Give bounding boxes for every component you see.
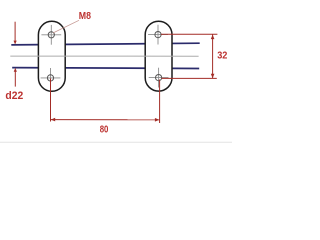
dimension 80 left arrowhead [51,118,56,122]
wire rod bottom line [12,67,199,70]
dimension 32 line [212,34,214,78]
dimension d22 bottom arrow [14,68,17,87]
dimension 32 top arrowhead [211,35,215,40]
leader M8 [53,20,79,33]
svg-text:M8: M8 [79,11,91,22]
footer rule [0,141,232,143]
dimension 80 right arrowhead [155,118,160,122]
left link plate [38,21,65,91]
right link plate [145,21,172,91]
hole D crosshair [149,68,169,88]
svg-text:32: 32 [217,51,227,62]
dimension 32 bottom arrowhead [211,74,215,79]
hole C circle [155,31,161,37]
centerline [10,55,198,57]
dimension d22 top arrow [14,22,17,45]
hole C crosshair [148,25,168,45]
svg-text:d22: d22 [5,90,23,102]
hole D circle [156,75,162,81]
wire rod top line [11,43,199,45]
hole B crosshair [41,68,61,88]
dimension 32 top extension line [161,33,217,35]
dimension 32 bottom extension line [162,77,217,79]
hole B circle [47,75,53,81]
hole A circle [48,32,54,38]
dimension 80 right extension line [159,80,161,124]
hole A crosshair [41,25,61,45]
dimension 80 left extension line [50,79,52,122]
dimension 80 line [51,119,160,121]
svg-text:80: 80 [100,125,109,136]
